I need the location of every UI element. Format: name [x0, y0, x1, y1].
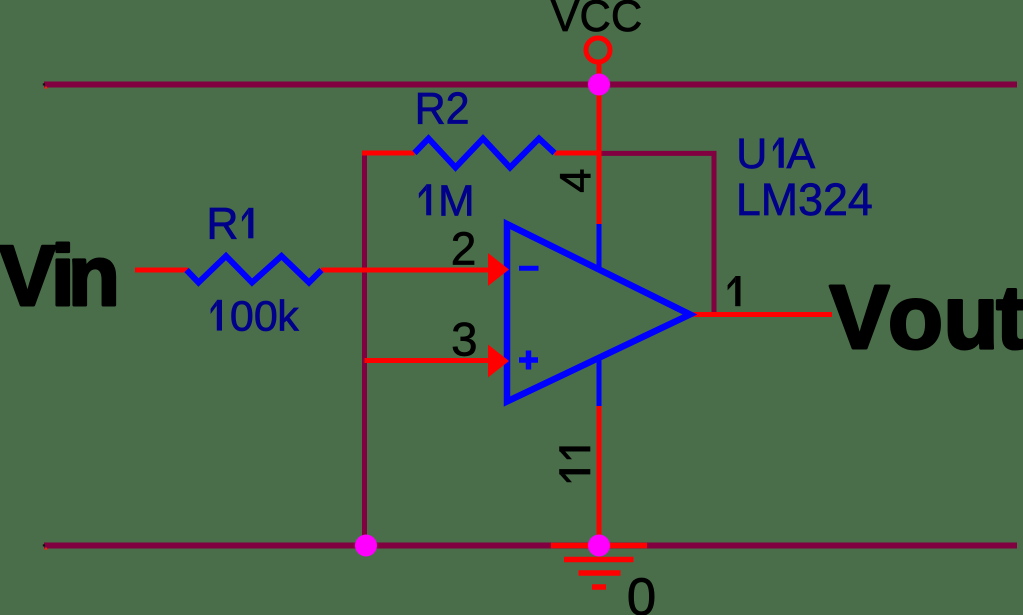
op-amp U1A triangle — [507, 224, 690, 402]
wire: pin 3 to left vertical — [365, 358, 501, 363]
svg-text:M: M — [438, 177, 475, 226]
junction dot at ground rail center — [588, 535, 610, 557]
wire: feedback left vertical (R2 left down past pin 2 to ground rail) — [362, 151, 367, 546]
value label 1M — [419, 184, 431, 215]
wire: bottom ground bus rail — [44, 543, 1017, 549]
resistor R2 zigzag — [415, 139, 555, 168]
svg-text:2: 2 — [451, 222, 477, 274]
svg-text:3: 3 — [451, 314, 477, 367]
pin 3 input arrow — [488, 345, 509, 378]
svg-text:00k: 00k — [230, 293, 299, 341]
pin number 11 (rotated) — [559, 446, 590, 482]
pin number 1 — [728, 276, 741, 306]
svg-text:Vin: Vin — [0, 229, 120, 324]
resistor R1 zigzag — [187, 256, 322, 283]
svg-text:R: R — [206, 199, 238, 248]
svg-text:0: 0 — [627, 568, 656, 615]
wire: R2 right stub — [555, 151, 602, 156]
wire: R1 to op-amp pin 2 — [321, 268, 500, 273]
ground symbol bar 1 — [551, 543, 647, 549]
ground symbol bar 2 — [564, 557, 634, 563]
wire: pin 11 to ground rail — [597, 406, 602, 546]
VCC port circle — [586, 38, 610, 62]
ground symbol bar 3 — [579, 570, 621, 576]
junction dot at ground rail left — [355, 535, 377, 557]
op-amp pin 4 stub — [597, 224, 602, 269]
value label 100k — [211, 300, 222, 331]
wire: Vin to R1 — [135, 268, 188, 273]
svg-text:R2: R2 — [415, 85, 470, 134]
op-amp plus symbol — [519, 351, 538, 370]
svg-text:LM324: LM324 — [736, 174, 873, 225]
wire: output pin 1 to Vout — [690, 312, 832, 317]
op-amp pin 11 stub — [597, 359, 602, 406]
svg-text:4: 4 — [553, 169, 601, 193]
wire: R2 left stub — [362, 151, 415, 156]
wire: top VCC bus rail — [44, 82, 1017, 88]
ground symbol bar 4 — [592, 584, 606, 590]
op-amp minus symbol — [519, 266, 539, 271]
wire: VCC vertical to pin 4 — [597, 62, 602, 224]
svg-text:VCC: VCC — [551, 0, 643, 41]
svg-text:Vout: Vout — [830, 268, 1023, 368]
wire: feedback right (output up and across to R2 right) — [600, 153, 714, 314]
pin 2 input arrow — [488, 253, 509, 286]
junction dot at VCC rail — [588, 74, 610, 96]
